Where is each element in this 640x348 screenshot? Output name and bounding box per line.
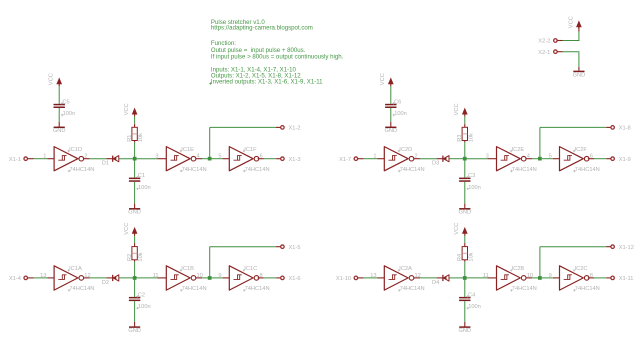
VCC supply symbol at X2	[568, 16, 581, 29]
svg-text:74HC14N: 74HC14N	[400, 286, 425, 292]
svg-text:IC2E: IC2E	[512, 147, 525, 153]
connector pin X1-6	[281, 276, 301, 282]
function description text	[211, 40, 344, 61]
svg-text:X1-9: X1-9	[619, 157, 631, 163]
capacitor C1 100n	[129, 178, 140, 180]
svg-text:If input pulse > 800us = outpu: If input pulse > 800us = output continuo…	[211, 53, 344, 60]
capacitor C6 100n	[385, 104, 396, 106]
wire capacitor C1 to GND	[134, 182, 136, 208]
capacitor C5 100n	[54, 104, 65, 106]
wire IC1E output to junction	[196, 158, 210, 160]
connector pin X1-5	[281, 245, 301, 251]
svg-text:3: 3	[155, 154, 158, 160]
connector pin X2-1 (GND)	[538, 50, 562, 56]
wire IC1C output to X1-6	[258, 277, 281, 279]
svg-text:VCC: VCC	[49, 73, 55, 85]
VCC supply symbol above C5	[49, 73, 62, 86]
wire node up to resistor R4	[464, 261, 466, 278]
wire capacitor C3 to GND	[464, 182, 466, 208]
diode D3	[432, 156, 449, 167]
svg-text:1: 1	[43, 154, 46, 160]
svg-text:VCC: VCC	[124, 223, 130, 235]
title text block	[211, 19, 313, 32]
svg-text:IC1C: IC1C	[244, 266, 257, 272]
svg-text:100n: 100n	[468, 185, 481, 191]
op-amp IC1E (74HC14N Schmitt inverter gate)	[155, 147, 206, 173]
wire junction up and right to X1-5	[210, 247, 281, 278]
wire resistor R4 to VCC	[464, 236, 466, 244]
svg-text:X1-6: X1-6	[289, 276, 301, 282]
pin stub IC2E.3	[488, 158, 497, 160]
op-amp IC2F (74HC14N Schmitt inverter gate)	[549, 147, 600, 173]
svg-text:74HC14N: 74HC14N	[69, 286, 94, 292]
svg-text:IC1E: IC1E	[181, 147, 194, 153]
junction at IC2E output	[538, 157, 542, 161]
wire IC2C output to X1-11	[588, 277, 611, 279]
svg-text:10k: 10k	[138, 133, 144, 142]
svg-text:R1: R1	[127, 135, 133, 142]
svg-text:GND: GND	[384, 128, 397, 134]
svg-text:3: 3	[486, 154, 489, 160]
wire node down to capacitor C1	[134, 159, 136, 178]
svg-text:GND: GND	[458, 328, 471, 334]
svg-text:74HC14N: 74HC14N	[182, 167, 207, 173]
wire node to IC1E	[135, 158, 158, 160]
connector pin X1-8	[611, 126, 631, 132]
wire junction to IC2F	[540, 158, 560, 160]
wire IC2D output to diode D3	[414, 158, 443, 160]
pin stub IC2B.11	[488, 277, 497, 279]
svg-text:R3: R3	[457, 135, 463, 142]
wire X1-4 to IC1A pin 13	[34, 277, 48, 279]
svg-text:74HC14N: 74HC14N	[400, 167, 425, 173]
wire diode D3 to node	[449, 158, 465, 160]
svg-text:VCC: VCC	[380, 73, 386, 85]
svg-text:10k: 10k	[468, 252, 474, 261]
svg-text:R4: R4	[457, 254, 463, 261]
svg-text:5: 5	[549, 154, 552, 160]
svg-text:13: 13	[370, 273, 376, 279]
svg-text:GND: GND	[128, 328, 141, 334]
diode D2	[102, 275, 119, 286]
pin stub IC1D.1	[47, 158, 54, 160]
svg-text:X1-11: X1-11	[619, 276, 634, 282]
wire X1-7 to IC2D pin 1	[364, 158, 378, 160]
svg-text:X1-7: X1-7	[339, 157, 351, 163]
pin stub IC2D.1	[378, 158, 385, 160]
svg-text:X1-12: X1-12	[619, 245, 634, 251]
connector pin X2-2 (VCC)	[538, 39, 562, 45]
svg-text:9: 9	[218, 273, 221, 279]
svg-text:74HC14N: 74HC14N	[575, 286, 600, 292]
svg-text:GND: GND	[128, 210, 141, 216]
op-amp IC1B (74HC14N Schmitt inverter gate)	[153, 266, 207, 292]
svg-text:X2-1: X2-1	[538, 50, 550, 56]
op-amp IC2E (74HC14N Schmitt inverter gate)	[486, 147, 537, 173]
connector pin X1-4	[9, 276, 34, 282]
wire diode D1 to node	[119, 158, 135, 160]
svg-text:VCC: VCC	[124, 103, 130, 115]
connector pin X1-10	[336, 276, 364, 282]
wire capacitor C2 to GND	[134, 301, 136, 326]
wire resistor R1 to VCC	[134, 116, 136, 124]
wire IC1A output to diode D2	[84, 277, 113, 279]
capacitor C4 100n	[459, 297, 470, 299]
svg-text:VCC: VCC	[454, 103, 460, 115]
resistor R1 10k	[127, 124, 144, 143]
svg-text:11: 11	[483, 273, 489, 279]
svg-text:https://adapting-camera.blogsp: https://adapting-camera.blogspot.com	[211, 25, 313, 32]
wire IC2F output to X1-9	[588, 158, 611, 160]
VCC supply symbol above R1	[124, 103, 137, 116]
ground below C5	[53, 127, 66, 134]
svg-text:100n: 100n	[138, 304, 151, 310]
svg-text:13: 13	[40, 273, 46, 279]
pin stub IC1B.11	[157, 277, 166, 279]
pin assignment text	[209, 66, 323, 85]
wire X2-1 to GND	[563, 52, 580, 71]
wire C5 to GND	[58, 108, 60, 127]
VCC supply symbol above R2	[124, 223, 137, 236]
svg-text:C3: C3	[468, 173, 475, 179]
svg-text:GND: GND	[458, 210, 471, 216]
svg-text:GND: GND	[53, 128, 66, 134]
svg-text:R2: R2	[127, 254, 133, 261]
svg-text:100n: 100n	[138, 185, 151, 191]
svg-text:IC2A: IC2A	[399, 266, 412, 272]
svg-text:VCC: VCC	[568, 16, 574, 28]
wire resistor R2 to VCC	[134, 236, 136, 244]
svg-text:IC1B: IC1B	[181, 266, 194, 272]
svg-text:X2-2: X2-2	[538, 39, 550, 45]
op-amp IC1C (74HC14N Schmitt inverter gate)	[218, 266, 269, 292]
wire node down to capacitor C3	[464, 159, 466, 178]
svg-text:IC2D: IC2D	[399, 147, 412, 153]
svg-text:IC1D: IC1D	[69, 147, 82, 153]
svg-text:100n: 100n	[468, 304, 481, 310]
svg-text:X1-5: X1-5	[289, 245, 301, 251]
svg-text:X1-4: X1-4	[9, 276, 21, 282]
diode D1	[102, 156, 119, 167]
wire IC2A output to diode D4	[414, 277, 443, 279]
svg-text:74HC14N: 74HC14N	[512, 286, 537, 292]
svg-text:74HC14N: 74HC14N	[245, 167, 270, 173]
ground below C6	[384, 127, 397, 134]
connector pin X1-12	[611, 245, 634, 251]
junction at IC2B output	[538, 276, 542, 280]
connector pin X1-9	[611, 157, 631, 163]
wire junction to IC1F	[210, 158, 230, 160]
svg-text:D4: D4	[432, 280, 439, 286]
svg-text:X1-3: X1-3	[289, 157, 301, 163]
junction at IC1B output	[208, 276, 212, 280]
svg-text:100n: 100n	[63, 111, 76, 117]
wire junction up and right to X1-12	[540, 247, 611, 278]
wire diode D2 to node	[119, 277, 135, 279]
svg-text:C2: C2	[138, 292, 145, 298]
svg-text:74HC14N: 74HC14N	[575, 167, 600, 173]
pin stub IC2A.13	[378, 277, 385, 279]
resistor R3 10k	[457, 124, 474, 143]
connector pin X1-7	[339, 157, 364, 163]
ground below C4	[458, 327, 471, 334]
svg-text:10k: 10k	[468, 133, 474, 142]
wire VCC to C5	[58, 86, 60, 104]
svg-text:C5: C5	[62, 99, 69, 105]
svg-text:IC1A: IC1A	[69, 266, 82, 272]
svg-text:IC2C: IC2C	[575, 266, 588, 272]
wire IC1F output to X1-3	[258, 158, 281, 160]
capacitor C2 100n	[129, 297, 140, 299]
wire junction up and right to X1-8	[540, 127, 611, 158]
wire C6 to GND	[390, 108, 392, 127]
svg-text:X1-2: X1-2	[289, 126, 301, 132]
svg-text:74HC14N: 74HC14N	[245, 286, 270, 292]
svg-text:1: 1	[373, 154, 376, 160]
op-amp IC2B (74HC14N Schmitt inverter gate)	[483, 266, 537, 292]
pin stub IC1A.13	[47, 277, 54, 279]
capacitor C3 100n	[459, 178, 470, 180]
svg-text:C6: C6	[394, 99, 401, 105]
ground below C1	[128, 209, 141, 216]
connector pin X1-1	[9, 157, 34, 163]
node junction RC-C2	[133, 276, 137, 280]
wire X2-2 to VCC	[563, 27, 580, 41]
svg-text:IC1F: IC1F	[244, 147, 257, 153]
svg-text:IC2B: IC2B	[512, 266, 525, 272]
svg-text:C1: C1	[138, 173, 145, 179]
connector pin X1-11	[611, 276, 634, 282]
wire node to IC2B	[465, 277, 488, 279]
wire X1-1 to IC1D pin 1	[34, 158, 48, 160]
svg-text:X1-1: X1-1	[9, 157, 21, 163]
connector pin X1-2	[281, 126, 301, 132]
svg-text:74HC14N: 74HC14N	[512, 167, 537, 173]
op-amp IC1A (74HC14N Schmitt inverter gate)	[40, 266, 94, 292]
wire node up to resistor R2	[134, 261, 136, 278]
wire IC2B output to junction	[526, 277, 540, 279]
connector pin X1-3	[281, 157, 301, 163]
wire node to IC1B	[135, 277, 158, 279]
wire node up to resistor R3	[464, 142, 466, 159]
svg-text:Function:: Function:	[211, 40, 236, 47]
op-amp IC2A (74HC14N Schmitt inverter gate)	[370, 266, 424, 292]
wire junction to IC2C	[540, 277, 560, 279]
VCC supply symbol above C6	[380, 73, 393, 86]
wire IC1D output to diode D1	[84, 158, 113, 160]
svg-text:10k: 10k	[138, 252, 144, 261]
svg-text:D3: D3	[432, 161, 439, 167]
svg-text:C4: C4	[468, 292, 475, 298]
wire diode D4 to node	[449, 277, 465, 279]
wire X1-10 to IC2A pin 13	[364, 277, 378, 279]
wire capacitor C4 to GND	[464, 301, 466, 326]
ground below C3	[458, 209, 471, 216]
wire node down to capacitor C2	[134, 278, 136, 297]
node junction RC-C3	[463, 157, 467, 161]
svg-text:100n: 100n	[394, 111, 407, 117]
svg-text:74HC14N: 74HC14N	[69, 167, 94, 173]
svg-text:Inverted outputs: X1-3, X1-6,: Inverted outputs: X1-3, X1-6, X1-9, X1-1…	[211, 79, 323, 86]
op-amp IC2C (74HC14N Schmitt inverter gate)	[549, 266, 600, 292]
svg-text:D2: D2	[102, 280, 109, 286]
wire junction up and right to X1-2	[210, 127, 281, 158]
ground below C2	[128, 327, 141, 334]
svg-text:74HC14N: 74HC14N	[182, 286, 207, 292]
svg-text:X1-8: X1-8	[619, 126, 631, 132]
wire VCC to C6	[390, 86, 392, 104]
svg-text:5: 5	[218, 154, 221, 160]
resistor R4 10k	[457, 243, 474, 262]
VCC supply symbol above R4	[454, 223, 467, 236]
VCC supply symbol above R3	[454, 103, 467, 116]
pin stub IC1E.3	[157, 158, 166, 160]
op-amp IC1F (74HC14N Schmitt inverter gate)	[218, 147, 269, 173]
wire IC1B output to junction	[196, 277, 210, 279]
diode D4	[432, 275, 449, 286]
wire resistor R3 to VCC	[464, 116, 466, 124]
junction at IC1E output	[208, 157, 212, 161]
svg-text:X1-10: X1-10	[336, 276, 351, 282]
wire node to IC2E	[465, 158, 488, 160]
svg-text:9: 9	[549, 273, 552, 279]
node junction RC-C1	[133, 157, 137, 161]
wire junction to IC1C	[210, 277, 230, 279]
svg-text:GND: GND	[573, 72, 586, 78]
node junction RC-C4	[463, 276, 467, 280]
wire node up to resistor R1	[134, 142, 136, 159]
svg-text:IC2F: IC2F	[575, 147, 588, 153]
svg-text:D1: D1	[102, 161, 109, 167]
wire node down to capacitor C4	[464, 278, 466, 297]
svg-text:11: 11	[153, 273, 159, 279]
op-amp IC2D (74HC14N Schmitt inverter gate)	[373, 147, 424, 173]
resistor R2 10k	[127, 243, 144, 262]
svg-text:VCC: VCC	[454, 223, 460, 235]
ground below X2-1	[573, 71, 586, 78]
op-amp IC1D (74HC14N Schmitt inverter gate)	[43, 147, 94, 173]
wire IC2E output to junction	[526, 158, 540, 160]
